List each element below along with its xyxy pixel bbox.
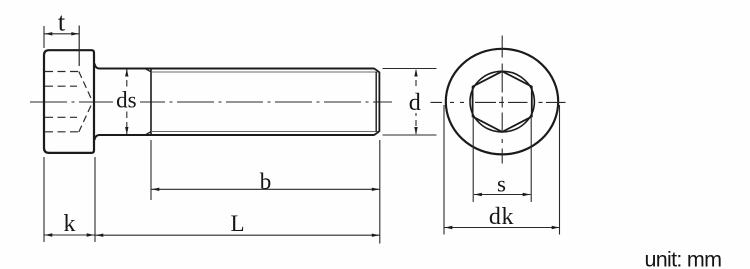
svg-text:s: s	[497, 172, 506, 197]
t dimension line	[45, 33, 80, 35]
end view outer circle	[446, 49, 558, 155]
tip chamfer line	[375, 72, 377, 132]
k dimension line	[45, 234, 95, 236]
dk extension line right	[559, 105, 561, 235]
L extension line (tip)	[379, 140, 381, 244]
L dimension line	[96, 234, 380, 236]
thread runout bottom slant	[146, 131, 152, 134]
svg-text:b: b	[260, 169, 272, 194]
socket hidden line top	[45, 71, 79, 73]
svg-text:L: L	[230, 211, 244, 236]
thread runout top slant	[146, 69, 152, 72]
ds label	[113, 90, 140, 111]
s dimension line	[474, 194, 531, 196]
k dimension arrows	[45, 233, 53, 236]
dk extension line left	[443, 105, 445, 235]
end view vertical centerline	[501, 36, 503, 168]
end view horizontal centerline	[431, 101, 570, 103]
thread minor diameter top	[151, 71, 379, 73]
b dimension arrows	[152, 188, 160, 191]
end view socket chamfer circle	[470, 71, 534, 132]
svg-text:dk: dk	[489, 204, 514, 230]
svg-text:t: t	[58, 8, 66, 37]
svg-text:k: k	[64, 211, 76, 237]
s extension line left	[472, 118, 474, 202]
socket cone lower slant	[79, 102, 93, 132]
tip end face	[378, 72, 380, 132]
s extension line right	[530, 118, 532, 202]
tip chamfer bottom slant	[374, 131, 379, 135]
d label	[405, 90, 427, 113]
centerline side view	[30, 101, 392, 103]
svg-text:ds: ds	[116, 88, 137, 113]
b extension line left	[150, 140, 152, 200]
socket hidden line bottom	[45, 131, 79, 133]
svg-text:d: d	[409, 90, 421, 116]
t extension line left	[43, 26, 45, 48]
svg-text:unit: mm: unit: mm	[645, 248, 722, 269]
d dimension line	[415, 70, 417, 134]
t dimension arrows	[45, 32, 53, 35]
socket hidden line upper-mid	[45, 85, 77, 87]
dk dimension arrows	[445, 226, 453, 229]
socket hidden line lower-mid	[45, 116, 77, 118]
k extension line (head left)	[43, 157, 45, 242]
d extension line top	[383, 68, 437, 70]
L dimension arrows	[96, 234, 104, 237]
head outline	[44, 50, 94, 153]
b dimension line	[152, 188, 380, 190]
d dimension arrows	[414, 69, 417, 77]
hex socket	[473, 71, 532, 132]
thread minor diameter bottom	[151, 131, 379, 133]
shank and thread bottom edge	[95, 135, 375, 140]
tip chamfer top slant	[374, 69, 379, 73]
socket depth line	[78, 26, 80, 67]
d extension line bottom	[383, 134, 437, 136]
k extension line (head right)	[94, 157, 96, 242]
dk dimension line	[445, 227, 560, 229]
shank and thread top edge	[95, 64, 375, 69]
s dimension arrows	[474, 193, 482, 196]
socket cone upper slant	[79, 72, 93, 102]
ds dimension line	[126, 70, 128, 135]
thread start line	[150, 69, 152, 136]
ds dimension arrows	[125, 69, 128, 77]
